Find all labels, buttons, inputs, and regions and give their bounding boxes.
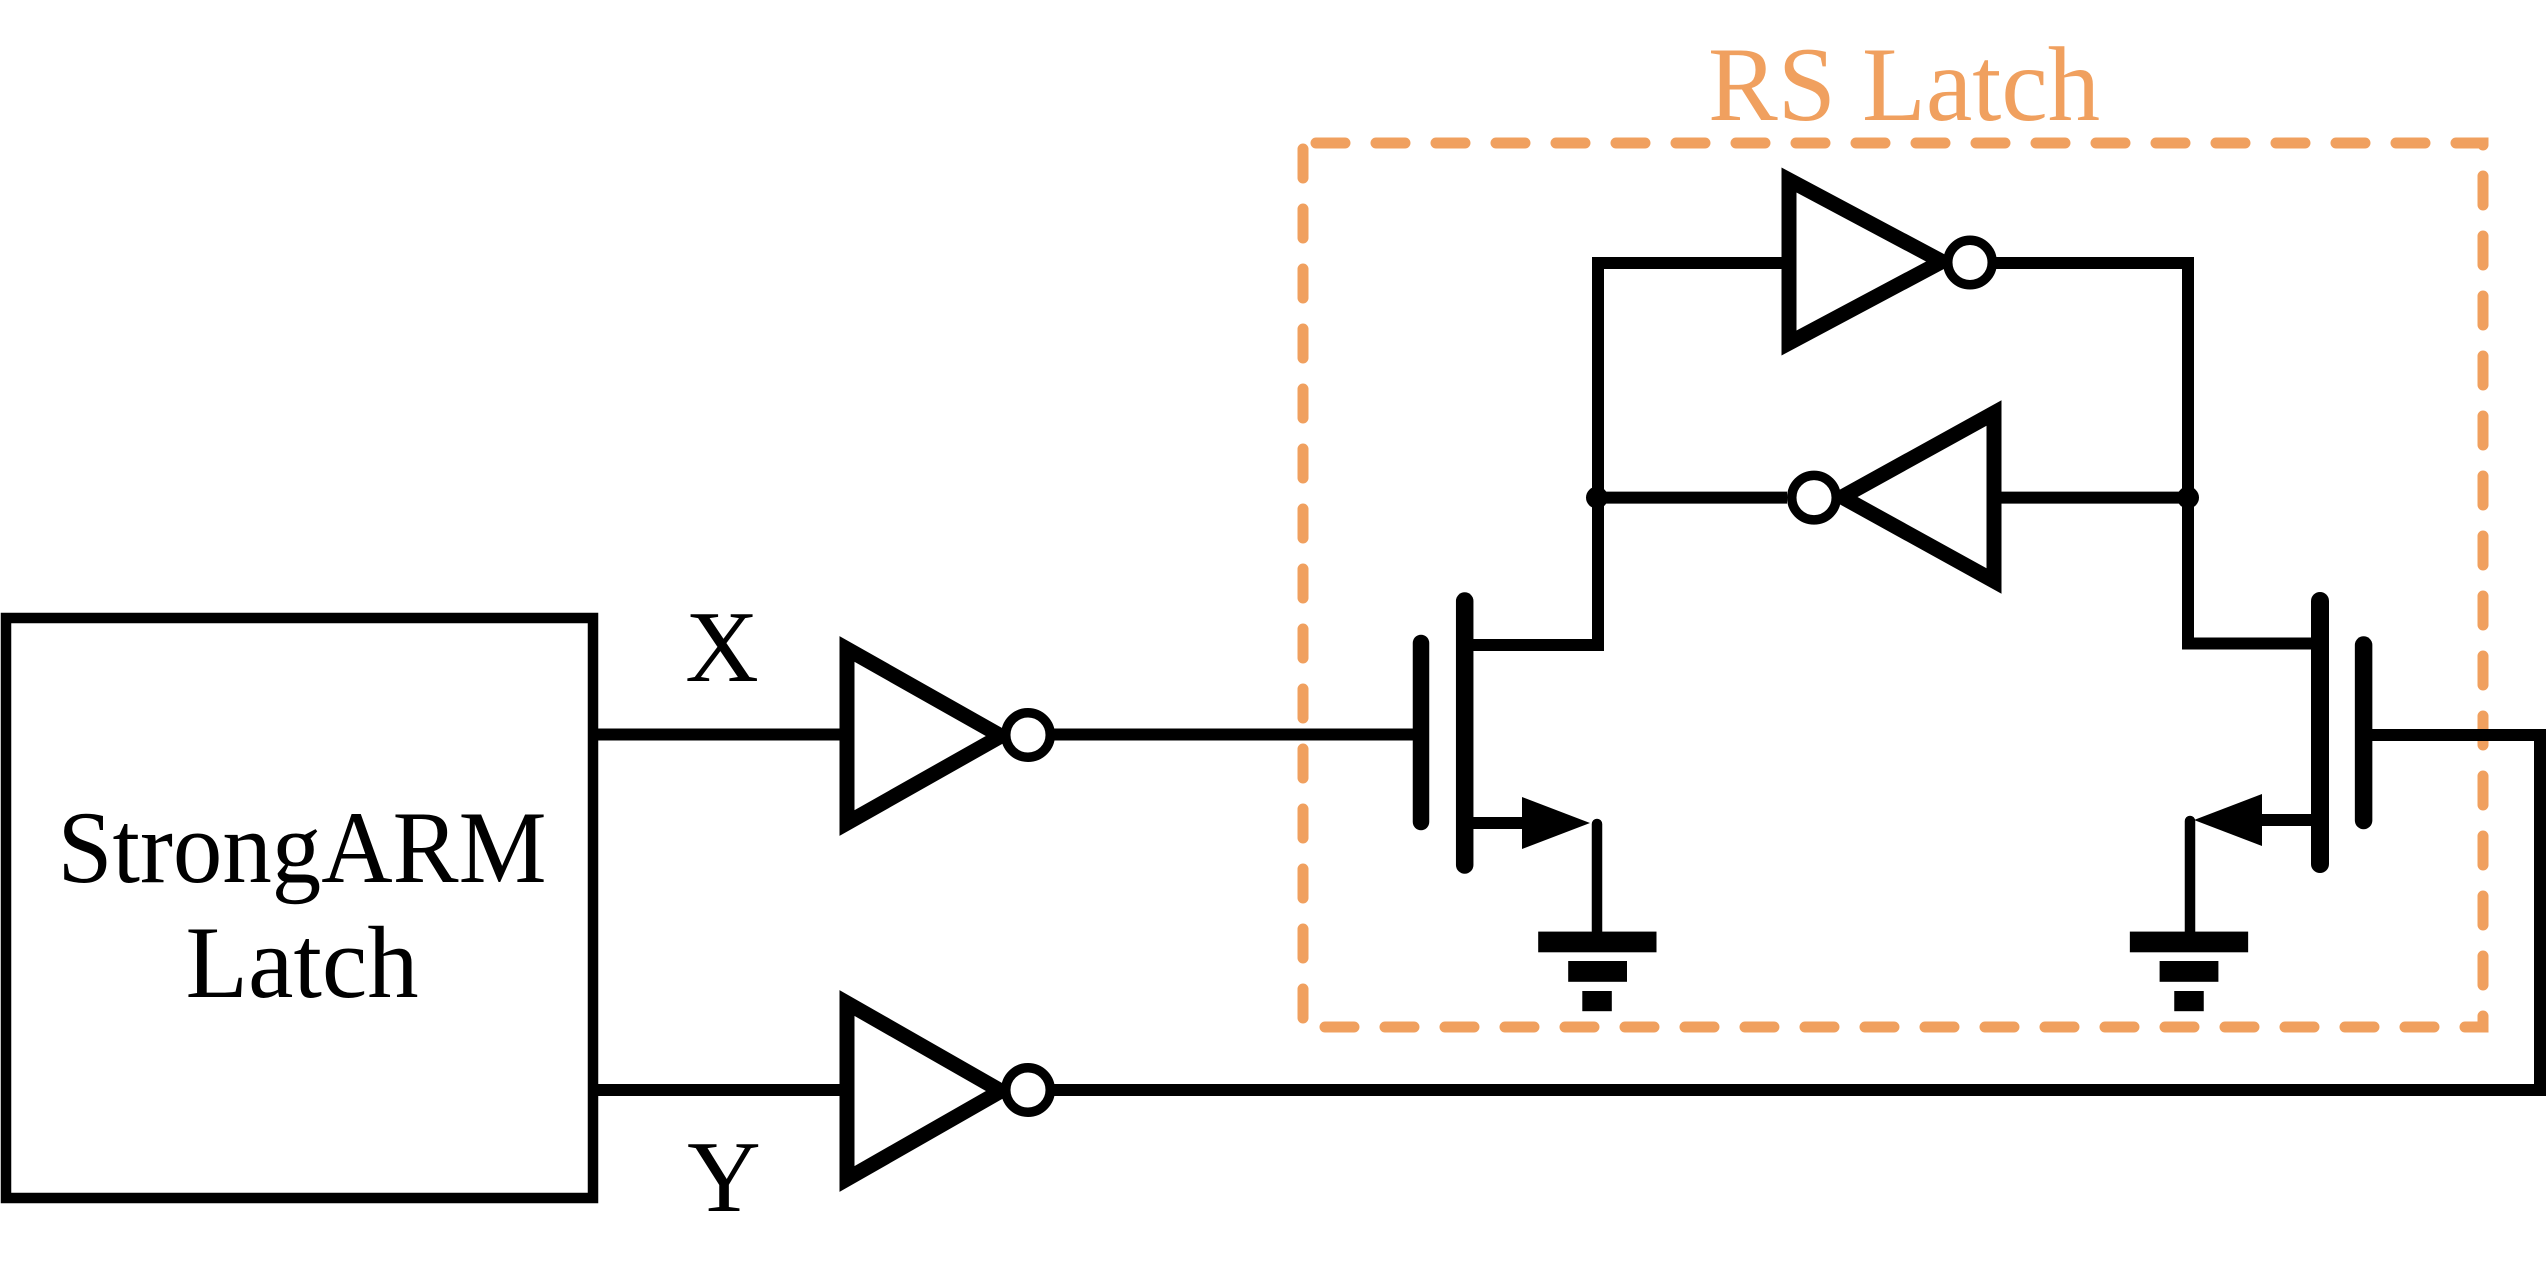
transistor M1 source stub with arrow [1465,797,1590,849]
transistor M2 source stub with arrow [2194,794,2320,846]
junction node Q (dot) [1586,487,1608,509]
wire R: inverter U3 output to M2 gate (long bottom run and right riser) [1050,735,2540,1090]
wire: M1 source to ground [1592,824,1603,936]
inverter U5 (middle, left-pointing) triangle [1842,413,1994,581]
transistor M2 (right NMOS, mirrored) gate bar [2355,645,2373,821]
transistor M1 channel bar [1456,601,1474,865]
wire: node QB to inverter U5 (middle) input [1990,492,2188,504]
svg-text:X: X [685,591,759,704]
wire: M2 source to ground [2185,821,2196,936]
inverter U2 (X buffer) triangle [847,649,1001,823]
inverter U4 (top, right-pointing) triangle [1789,180,1942,343]
inverter U3 output bubble [1006,1068,1051,1113]
transistor M2 channel bar [2311,601,2329,864]
inverter U2 output bubble [1006,713,1051,758]
wire: inverter U5 output to node Q rail [1598,492,1787,504]
StrongARM Latch block U1 [6,618,593,1198]
wire: inverter U4 output to node QB rail (right vertical) and M2 drain stub [1992,263,2320,644]
svg-text:StrongARM: StrongARM [58,791,547,905]
ground symbol GND1 (left) [1538,932,1656,1012]
wire X: latch output X to inverter U2 input [593,729,845,741]
ground symbol GND2 (right) [2130,932,2248,1012]
node X label [685,591,759,704]
wire: node Q rail - M1 drain stub, left vertical riser and inverter U4 (top) input [1465,263,1791,645]
inverter U4 output bubble [1948,240,1993,285]
transistor M1 (left NMOS) gate bar [1413,643,1430,822]
RS Latch title label [1708,26,2100,143]
junction node QB (dot) [2177,487,2199,509]
inverter U3 (Y buffer) triangle [847,1003,1001,1179]
svg-text:Latch: Latch [186,906,419,1020]
svg-text:RS Latch: RS Latch [1708,26,2100,143]
wire: inverter U2 output to M1 gate (node S) [1050,729,1421,741]
node Y label [687,1121,761,1234]
wire Y: latch output Y to inverter U3 input [593,1084,845,1096]
RS Latch dashed boundary box [1303,143,2483,1027]
svg-text:Y: Y [687,1121,761,1234]
inverter U5 output bubble [1792,475,1837,519]
